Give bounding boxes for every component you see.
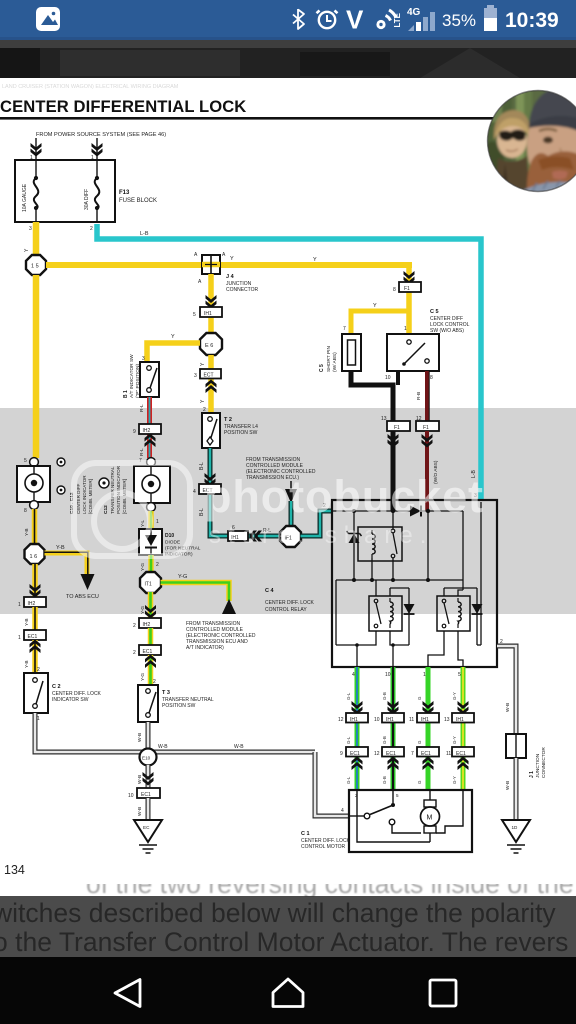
svg-text:Y-B: Y-B — [24, 618, 30, 626]
diode on top bus — [410, 506, 421, 517]
svg-text:("P" POSITION): ("P" POSITION) — [135, 364, 141, 398]
svg-text:1D: 1D — [512, 825, 519, 830]
short pin C5 box — [342, 334, 361, 371]
svg-text:1: 1 — [18, 602, 21, 608]
svg-text:C 1: C 1 — [301, 831, 310, 837]
svg-text:2: 2 — [90, 226, 93, 232]
switch C2 center diff lock indicator sw — [24, 673, 48, 713]
svg-text:CENTER DIFF. LOCK: CENTER DIFF. LOCK — [265, 600, 315, 606]
woman face — [497, 122, 527, 158]
svg-text:Y: Y — [313, 257, 317, 263]
junction dots top bus — [352, 509, 356, 513]
svg-text:photobucket: photobucket — [204, 471, 484, 522]
switch B1 A/T indicator — [140, 362, 159, 397]
wire yellow horizontal node15 to J4 to C5 drop — [46, 265, 409, 268]
wire W-B J1 to ground — [514, 758, 519, 820]
svg-text:LAND CRUISER (STATION WAGON) E: LAND CRUISER (STATION WAGON) ELECTRICAL … — [2, 84, 179, 90]
svg-text:3: 3 — [29, 226, 32, 232]
man face — [527, 94, 576, 198]
wire Y-B node16 down to C2 — [32, 564, 38, 597]
svg-text:IH2: IH2 — [143, 428, 151, 434]
wire R-B F1 to relay — [425, 431, 429, 511]
wire yellow fuse1 to node 15 — [33, 222, 40, 256]
wire W-B T3 to E10 — [146, 722, 151, 750]
switch T2 TRANSFER L4 POSITION SW — [202, 413, 220, 448]
svg-text:10: 10 — [385, 375, 391, 381]
connector 12 EC1 col2 — [374, 747, 404, 757]
wire teal IF1 to relay box — [301, 511, 333, 536]
svg-text:EC: EC — [143, 825, 150, 830]
svg-text:M: M — [427, 815, 433, 822]
svg-text:R-L: R-L — [139, 448, 145, 456]
relay mid bus — [336, 579, 463, 581]
wire teal TCM arrow to IF1 — [289, 501, 294, 527]
svg-text:3: 3 — [194, 373, 197, 379]
android nav bar — [0, 957, 576, 1024]
connector 2 IH2 mid — [133, 618, 161, 629]
green wire column 3 G — [417, 667, 428, 790]
svg-text:A/T INDICATOR): A/T INDICATOR) — [186, 645, 224, 651]
wire W-B to motor pin 4 — [315, 752, 364, 816]
connector 12 F1 — [416, 421, 439, 431]
svg-text:C 5: C 5 — [319, 364, 325, 372]
svg-text:8: 8 — [393, 287, 396, 293]
connector 13 F1 — [387, 421, 410, 431]
svg-text:IH1: IH1 — [204, 311, 212, 317]
node IF1 octagon — [280, 526, 301, 547]
svg-text:7: 7 — [343, 326, 346, 332]
svg-text:C 4: C 4 — [265, 588, 275, 594]
svg-text:W-B: W-B — [137, 775, 143, 784]
svg-text:LOCK INDICATOR: LOCK INDICATOR — [82, 475, 87, 514]
nav recents square — [430, 980, 456, 1006]
terminal circle A center indicator — [30, 458, 39, 467]
svg-text:EC1: EC1 — [143, 649, 153, 655]
svg-text:10A GAUGE: 10A GAUGE — [22, 183, 28, 212]
svg-text:11: 11 — [446, 751, 451, 757]
alarm clock icon — [317, 11, 338, 29]
svg-text:DIODE: DIODE — [165, 540, 180, 546]
node 15 octagon — [26, 255, 46, 275]
connector 10 IH1 col2 — [374, 713, 404, 723]
svg-text:7: 7 — [411, 751, 414, 757]
status bar background — [0, 0, 576, 40]
svg-text:3: 3 — [142, 356, 145, 362]
svg-text:IH1: IH1 — [350, 717, 358, 723]
arrow to ABS ECU — [81, 574, 95, 590]
lamp transfer neutral position indicator — [134, 466, 170, 503]
svg-text:V: V — [346, 5, 364, 35]
svg-text:G-Y: G-Y — [452, 692, 457, 700]
svg-text:1: 1 — [423, 672, 426, 678]
fuse F2 30A DIFF — [95, 160, 100, 222]
chevrons left on horizontal teal — [249, 531, 262, 542]
connector 1 IH2 left — [18, 597, 46, 608]
motor box C1 — [349, 790, 472, 852]
svg-text:store. share.: store. share. — [209, 522, 433, 549]
4G signal bars — [407, 7, 435, 31]
arrow from TCM up — [222, 599, 236, 614]
svg-text:11: 11 — [409, 717, 414, 723]
svg-text:CONTROL MOTOR: CONTROL MOTOR — [301, 844, 346, 850]
svg-text:8: 8 — [430, 375, 433, 381]
fuse F1 10A GAUGE — [34, 160, 39, 222]
woman hair — [494, 110, 531, 140]
svg-text:CONNECTOR: CONNECTOR — [226, 287, 259, 293]
svg-text:G-Y: G-Y — [452, 776, 457, 784]
wire Y-G IT1 right to TCM arrow — [161, 583, 230, 602]
switch T3 transfer neutral position sw — [138, 685, 158, 722]
ground EC triangle — [134, 820, 162, 853]
svg-text:T 2: T 2 — [224, 417, 232, 423]
svg-text:A/T INDICATOR SW: A/T INDICATOR SW — [129, 354, 135, 398]
wire black C5 pin down — [396, 371, 400, 385]
svg-text:2: 2 — [133, 623, 136, 629]
footer partial text line above — [86, 869, 576, 899]
bluetooth icon — [293, 9, 304, 29]
connector 10 EC1 bottom — [128, 788, 160, 799]
svg-text:Y-L: Y-L — [140, 520, 146, 527]
svg-text:POSITION INDICATOR: POSITION INDICATOR — [116, 465, 121, 514]
svg-text:13: 13 — [444, 717, 450, 723]
wire black F1 to relay — [391, 431, 396, 511]
wire R-L B1 down to indicator — [147, 397, 152, 458]
connector 3 ECT — [194, 369, 221, 379]
man beard — [527, 151, 576, 197]
arrow from TCM into IF1 — [290, 481, 292, 489]
connector 11 EC1 col4 — [446, 747, 474, 757]
svg-text:4: 4 — [352, 672, 355, 678]
wire feed left fuse — [35, 138, 37, 160]
svg-text:SW (W/O ABS): SW (W/O ABS) — [430, 328, 464, 334]
wire Y-G IT1 down — [148, 592, 154, 618]
connector 12 IH1 col1 — [338, 713, 368, 723]
svg-text:SHORT PIN: SHORT PIN — [326, 346, 332, 372]
avatar rim — [488, 91, 576, 192]
lamp center diff lock indicator — [17, 466, 50, 502]
relay inner top bus — [332, 510, 463, 512]
motor M — [421, 790, 440, 842]
connector 8 F1 — [393, 282, 421, 293]
svg-text:C12: C12 — [103, 505, 109, 514]
connector 9 EC1 col1 — [340, 747, 368, 757]
svg-text:(W/ ABS): (W/ ABS) — [332, 352, 338, 372]
man cap — [529, 84, 576, 130]
svg-text:9: 9 — [133, 429, 136, 435]
relay2 box — [369, 596, 402, 631]
svg-text:EC1: EC1 — [386, 751, 396, 757]
svg-text:TO ABS ECU: TO ABS ECU — [66, 594, 99, 600]
nav home — [273, 979, 303, 1007]
svg-text:9: 9 — [340, 751, 343, 757]
VoLTE icon — [346, 5, 402, 35]
dark band below status bar — [0, 40, 576, 78]
svg-text:E 6: E 6 — [205, 343, 213, 349]
svg-text:G-L: G-L — [346, 776, 351, 784]
svg-text:G-B: G-B — [382, 776, 387, 784]
wire W-B EC1 to ground — [146, 798, 151, 820]
motor inner wiring — [357, 790, 430, 842]
fuse block F13 box — [15, 160, 115, 222]
avatar profile photo — [482, 84, 576, 198]
svg-text:B 1: B 1 — [123, 390, 129, 398]
node IT1 octagon — [140, 572, 161, 593]
svg-text:13: 13 — [381, 416, 387, 422]
svg-text:8: 8 — [24, 508, 27, 514]
svg-text:G-B: G-B — [382, 736, 387, 744]
wire Y-G to EC1 — [148, 628, 154, 645]
wire W-B E10 down — [146, 765, 151, 788]
wire Y-B branch to ABS ECU — [45, 553, 88, 576]
svg-text:[COMB. METER]: [COMB. METER] — [122, 479, 127, 514]
wire black short pin to F1 13 — [351, 371, 393, 421]
svg-text:10: 10 — [374, 717, 380, 723]
svg-text:J 4: J 4 — [226, 274, 235, 280]
svg-text:FROM POWER SOURCE SYSTEM (SEE: FROM POWER SOURCE SYSTEM (SEE PAGE 46) — [36, 132, 166, 138]
svg-text:Y-G: Y-G — [140, 673, 146, 681]
relay inner verticals — [392, 511, 394, 580]
wire yellow E6 down to T2 — [208, 355, 214, 413]
svg-text:5: 5 — [458, 672, 461, 678]
svg-text:134: 134 — [4, 863, 25, 877]
node E6 octagon — [200, 333, 222, 355]
connector 11 IH1 col3 — [409, 713, 439, 723]
man nose shadow — [559, 148, 561, 160]
svg-text:4G: 4G — [407, 7, 421, 18]
svg-text:INDICATOR SW: INDICATOR SW — [52, 697, 89, 703]
svg-text:R-L: R-L — [139, 404, 145, 412]
svg-text:1: 1 — [156, 519, 159, 525]
svg-text:30A DIFF: 30A DIFF — [84, 189, 90, 210]
node 16 octagon — [25, 544, 45, 564]
svg-text:Y-G: Y-G — [178, 574, 187, 580]
wire yellow branch to short pin — [351, 311, 409, 334]
green wire column 2 G-B — [382, 667, 393, 790]
svg-text:R-B: R-B — [416, 392, 422, 400]
svg-text:IH2: IH2 — [143, 622, 151, 628]
woman sunglasses — [499, 130, 526, 141]
connector 7 EC1 col3 — [411, 747, 439, 757]
marker circle C12 — [99, 478, 109, 488]
junction connector J4 — [194, 252, 226, 285]
svg-text:10: 10 — [385, 672, 391, 678]
wire L-B cyan from fuse 2 — [97, 224, 481, 500]
svg-text:F1: F1 — [423, 425, 429, 431]
diode D10 — [139, 529, 162, 555]
wire Y-B below center indicator — [32, 509, 38, 546]
wire yellow J4 down to E6 — [208, 274, 214, 334]
svg-text:G: G — [417, 780, 422, 784]
svg-text:ECT: ECT — [204, 373, 214, 379]
svg-text:[COMB. METER]: [COMB. METER] — [88, 479, 93, 514]
diode relay2 — [404, 588, 415, 645]
zener diode branch — [347, 511, 362, 580]
wire Y-B to EC1 — [32, 607, 38, 630]
connector 2 EC1 mid — [133, 645, 161, 656]
terminal circle transfer indicator bottom — [147, 503, 156, 512]
svg-text:1 5: 1 5 — [31, 264, 39, 270]
man shirt — [514, 182, 576, 197]
svg-text:Y-B: Y-B — [24, 528, 30, 536]
svg-text:G: G — [417, 740, 422, 744]
svg-text:EC1: EC1 — [28, 634, 38, 640]
svg-text:4: 4 — [341, 808, 344, 814]
watermark camera logo — [74, 463, 190, 556]
svg-text:CONNECTOR: CONNECTOR — [541, 747, 547, 778]
svg-text:B-L: B-L — [199, 462, 205, 470]
svg-text:Y-G: Y-G — [140, 563, 146, 571]
svg-text:Y: Y — [171, 334, 175, 340]
connector 1 EC1 left — [18, 630, 46, 641]
connector 5 IH1 below J4 — [193, 307, 222, 318]
junction connector J1 — [506, 734, 526, 758]
svg-text:IH1: IH1 — [421, 717, 429, 723]
svg-text:IT1: IT1 — [145, 582, 152, 588]
svg-text:10:39: 10:39 — [505, 9, 559, 32]
svg-text:POSITION SW: POSITION SW — [224, 430, 258, 436]
green wire column 1 G-L — [346, 667, 357, 790]
svg-text:POSITION SW: POSITION SW — [162, 703, 196, 709]
footer dim overlay — [0, 896, 576, 957]
man eye and brow — [543, 137, 553, 144]
svg-text:EC1: EC1 — [350, 751, 360, 757]
svg-text:T 3: T 3 — [162, 690, 170, 696]
svg-text:5: 5 — [193, 312, 196, 318]
connector 9 IH2 — [133, 424, 161, 435]
connector 4 ECT — [193, 484, 221, 495]
svg-text:2: 2 — [133, 650, 136, 656]
wire yellow main left column down — [33, 275, 40, 458]
woman torso — [494, 156, 530, 197]
switch C5 CENTER DIFF LOCK CONTROL SW — [387, 334, 439, 371]
terminal circle transfer indicator top — [147, 458, 156, 467]
wire W-B relay to J1 — [497, 646, 516, 734]
relay box C4 — [332, 500, 497, 667]
svg-text:E10: E10 — [142, 756, 151, 761]
green wire column 4 G-Y — [452, 667, 463, 790]
svg-text:F1: F1 — [404, 286, 410, 292]
svg-text:IH1: IH1 — [386, 717, 394, 723]
wire R-B dark red C5 to F1 12 — [425, 371, 429, 421]
svg-text:12: 12 — [338, 717, 344, 723]
terminal circle B center indicator — [30, 501, 39, 510]
marker circles A B right of lamp — [57, 458, 65, 466]
svg-text:F13: F13 — [119, 190, 130, 196]
svg-text:F1: F1 — [394, 425, 400, 431]
wire yellow drop to F1 connector 8 — [406, 265, 412, 334]
svg-text:FUSE BLOCK: FUSE BLOCK — [119, 198, 157, 204]
svg-text:EC1: EC1 — [141, 792, 151, 798]
diode relay3 — [472, 588, 483, 645]
svg-text:Y: Y — [373, 303, 377, 309]
svg-text:4: 4 — [193, 489, 196, 495]
gray watermark band background — [0, 408, 576, 614]
svg-text:G-B: G-B — [382, 692, 387, 700]
wire feed right fuse — [96, 138, 98, 160]
svg-text:G-L: G-L — [346, 692, 351, 700]
ground 1D triangle — [502, 820, 530, 853]
svg-text:35%: 35% — [442, 11, 476, 30]
svg-text:C 2: C 2 — [52, 684, 61, 690]
svg-text:G-L: G-L — [346, 736, 351, 744]
battery icon — [484, 5, 497, 31]
nav back triangle — [115, 980, 140, 1007]
relay3 box — [437, 596, 470, 631]
svg-text:5: 5 — [24, 458, 27, 464]
svg-text:J 1: J 1 — [529, 771, 535, 778]
svg-text:EC1: EC1 — [421, 751, 431, 757]
svg-text:G: G — [417, 696, 422, 700]
wire Y-L transfer indicator to D10 — [148, 511, 154, 529]
wire Y-G D10 to IT1 — [148, 555, 154, 573]
svg-text:1: 1 — [18, 635, 21, 641]
svg-text:C 5: C 5 — [430, 309, 439, 315]
wire W-B inside motor box — [349, 815, 364, 817]
relay1 pilot box — [358, 527, 402, 561]
title underline rule — [0, 117, 576, 120]
svg-text:2: 2 — [156, 562, 159, 568]
wire yellow E6 to B1 — [147, 343, 200, 362]
svg-text:W-B: W-B — [137, 807, 143, 816]
svg-text:W-B: W-B — [137, 733, 143, 742]
wire B-L teal T2 down — [210, 448, 281, 536]
connector 13 IH1 col4 — [444, 713, 474, 723]
svg-text:W-B: W-B — [158, 744, 168, 750]
relay interconnects — [375, 580, 377, 596]
svg-text:Y-B: Y-B — [24, 660, 30, 668]
connector 6 IH1 on horizontal — [228, 525, 248, 541]
svg-text:L-B: L-B — [140, 231, 149, 237]
svg-text:TRANSFER NEUTRAL: TRANSFER NEUTRAL — [110, 466, 115, 514]
svg-text:JUNCTION: JUNCTION — [535, 753, 541, 778]
wire W-B C2 down and right — [35, 713, 315, 752]
svg-text:W-B: W-B — [234, 744, 244, 750]
svg-text:CONTROL RELAY: CONTROL RELAY — [265, 607, 307, 613]
node E10 circle — [140, 749, 157, 766]
svg-text:IH2: IH2 — [28, 601, 36, 607]
svg-text:1 6: 1 6 — [30, 554, 38, 560]
man lips — [552, 171, 568, 180]
svg-text:CENTER DIFFERENTIAL LOCK: CENTER DIFFERENTIAL LOCK — [0, 97, 246, 116]
gallery notification icon — [36, 7, 60, 31]
svg-text:Y: Y — [230, 256, 234, 262]
svg-text:12: 12 — [374, 751, 380, 757]
svg-text:EC1: EC1 — [456, 751, 466, 757]
wire Y-B EC1 to C2 — [32, 640, 38, 673]
svg-text:Y-B: Y-B — [56, 545, 65, 551]
svg-text:W-B: W-B — [505, 703, 511, 712]
svg-text:LTE: LTE — [393, 12, 402, 27]
svg-text:G-Y: G-Y — [452, 736, 457, 744]
wire Y-G EC1 to T3 — [148, 655, 154, 685]
svg-text:1: 1 — [404, 326, 407, 332]
svg-text:D10: D10 — [165, 533, 174, 539]
svg-text:IH1: IH1 — [456, 717, 464, 723]
svg-text:10: 10 — [128, 793, 134, 799]
motor switch contacts — [364, 790, 421, 833]
svg-text:5: 5 — [396, 793, 399, 798]
svg-text:W-B: W-B — [505, 781, 511, 790]
